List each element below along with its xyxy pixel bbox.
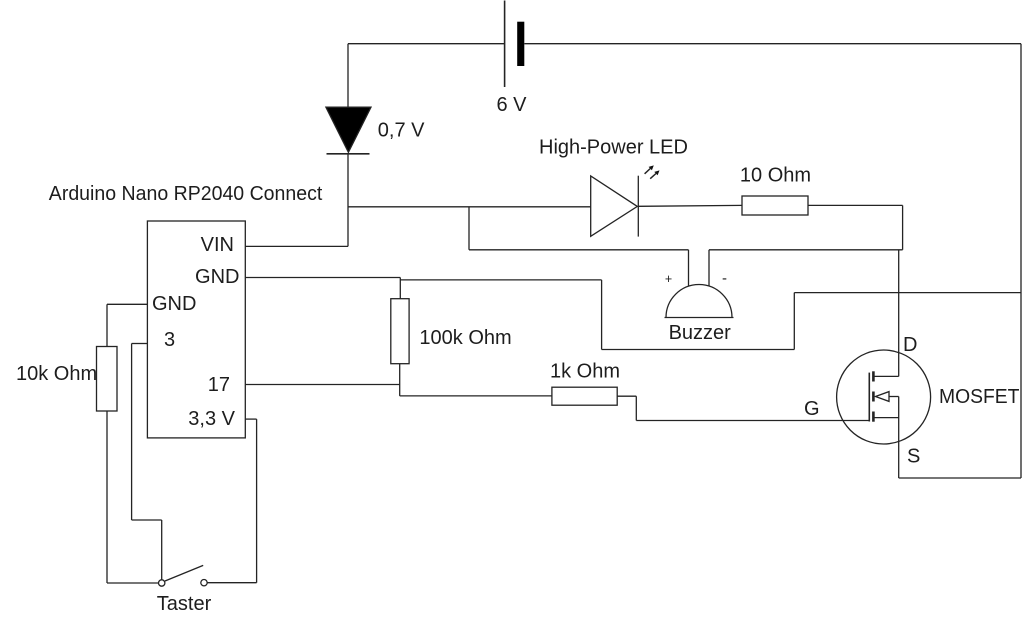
wire pin17 <box>245 384 399 386</box>
wire 100k top lead <box>399 278 401 299</box>
svg-text:3,3 V: 3,3 V <box>188 408 235 430</box>
wire right edge down <box>1020 44 1022 478</box>
wire buzzer row right <box>709 249 903 251</box>
wire gate row <box>636 420 869 422</box>
wire battery top left <box>348 43 505 45</box>
Arduino U1 body <box>147 221 245 438</box>
wire 100k bottom lead <box>399 364 401 396</box>
wire GND right segment a <box>245 277 400 279</box>
wire bottom right to source <box>899 477 1021 479</box>
wire buzzer minus lead <box>708 250 710 286</box>
svg-text:6 V: 6 V <box>496 94 527 116</box>
mosfet Q1 channel bar top <box>872 371 875 381</box>
svg-text:-: - <box>722 270 727 287</box>
mosfet Q1 channel bar middle <box>872 392 875 402</box>
svg-text:Buzzer: Buzzer <box>669 322 732 344</box>
wire diode cathode to VIN node <box>347 154 349 247</box>
wire buzzer plus lead <box>688 250 690 286</box>
svg-text:S: S <box>907 446 920 468</box>
svg-text:10 Ohm: 10 Ohm <box>740 164 811 186</box>
wire GND right segment b <box>400 279 601 281</box>
LED D2 light arrow 1 <box>645 169 651 174</box>
wire switch right <box>207 582 256 584</box>
svg-text:1k Ohm: 1k Ohm <box>550 361 620 383</box>
wire 10k bottom lead <box>106 411 108 583</box>
svg-text:Arduino Nano RP2040 Connect: Arduino Nano RP2040 Connect <box>49 183 323 205</box>
wire resistor R10 output corner <box>902 205 904 249</box>
diode D1 body <box>326 107 371 152</box>
mosfet Q1 body stub <box>889 396 899 398</box>
wire pin3 stub <box>132 343 148 345</box>
switch S1 left contact <box>159 580 165 586</box>
svg-text:VIN: VIN <box>201 234 234 256</box>
svg-text:GND: GND <box>152 293 196 315</box>
LED D2 triangle <box>591 176 638 236</box>
wire buzzer row left <box>469 249 689 251</box>
svg-text:High-Power LED: High-Power LED <box>539 137 688 159</box>
wire diode anode <box>347 44 349 108</box>
buzzer BZ1 dome <box>666 285 732 318</box>
svg-text:D: D <box>903 334 917 356</box>
mosfet Q1 body arrow <box>876 392 890 402</box>
wire 1k output <box>617 395 636 397</box>
wire pin3 across <box>132 519 162 521</box>
battery V1 plus plate <box>504 1 506 88</box>
wire GND net across <box>602 349 795 351</box>
wire 10k top lead <box>106 304 108 346</box>
wire pin3 down <box>131 344 133 521</box>
battery V1 minus plate <box>517 22 524 66</box>
mosfet Q1 source stub <box>875 417 899 419</box>
wire LED cathode to resistor <box>638 204 742 207</box>
wire to switch left <box>107 582 159 584</box>
wire LED row <box>348 206 591 208</box>
wire 3.3V vertical <box>256 419 258 583</box>
wire GND net to right edge <box>794 292 1021 294</box>
mosfet Q1 circle <box>837 350 931 444</box>
wire branch node down <box>468 207 470 250</box>
mosfet Q1 gate plate <box>868 373 870 422</box>
wire battery top right <box>524 43 1021 45</box>
svg-text:0,7 V: 0,7 V <box>378 119 425 141</box>
mosfet Q1 drain stub <box>875 375 899 377</box>
svg-text:10k Ohm: 10k Ohm <box>16 363 97 385</box>
wire drain vertical <box>898 250 900 377</box>
wire gate corner <box>635 396 637 420</box>
svg-text:MOSFET: MOSFET <box>939 386 1020 408</box>
diode D1 cathode bar <box>327 153 370 155</box>
switch S1 lever <box>165 565 203 581</box>
svg-text:+: + <box>665 272 672 286</box>
resistor R10 10 Ohm body <box>742 196 808 215</box>
svg-text:100k Ohm: 100k Ohm <box>419 327 511 349</box>
svg-text:GND: GND <box>195 266 239 288</box>
wire VIN pin <box>245 245 348 247</box>
wire GND left <box>107 303 147 305</box>
wire resistor R10 to corner <box>808 204 903 206</box>
svg-text:G: G <box>804 398 820 420</box>
mosfet Q1 body-source vertical <box>898 397 900 479</box>
buzzer BZ1 base <box>665 317 734 319</box>
wire pin3 to switch <box>161 520 163 580</box>
resistor R3 1k body <box>552 387 617 405</box>
resistor R1 10k body <box>97 347 118 412</box>
LED D2 cathode bar <box>637 176 639 237</box>
svg-text:3: 3 <box>164 329 175 351</box>
LED D2 light arrow 2 <box>650 174 656 179</box>
wire GND net up <box>793 293 795 350</box>
wire 3.3V stub <box>245 418 256 420</box>
svg-text:Taster: Taster <box>157 593 212 615</box>
mosfet Q1 channel bar bottom <box>872 412 875 422</box>
wire GND net down <box>601 280 603 350</box>
svg-text:17: 17 <box>208 374 230 396</box>
wire to 1k resistor <box>400 395 552 397</box>
switch S1 right contact <box>201 580 207 586</box>
resistor R2 100k body <box>391 299 409 364</box>
